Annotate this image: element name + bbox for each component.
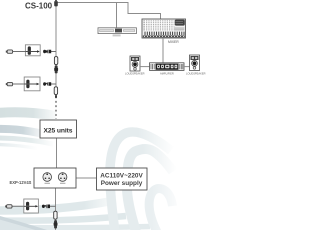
left band A [0,112,56,116]
bottom flat band N3 [0,227,150,228]
bottom flat band N2 [0,216,126,221]
wire: left speaker to amplifier [140,66,150,68]
branch 3 junction box [24,199,39,213]
svg-text:Power supply: Power supply [101,180,143,187]
branch 2 junction box [24,77,40,91]
left band B [0,129,44,134]
CD player [98,28,136,37]
branch 2 wire [13,83,41,85]
wire: drop to player [116,3,118,29]
loudspeaker right [190,55,200,71]
wire: connector box to power supply [76,177,97,179]
branch 3 handheld plug [5,205,12,208]
trunk inline coupler 2 (socket) [54,87,57,95]
svg-text:EXP-12V4S: EXP-12V4S [10,180,32,185]
branch 2 handheld plug [6,82,13,85]
svg-text:AC110V~220V: AC110V~220V [100,173,143,180]
bottom-left corner wedge [0,217,54,234]
power supply box [97,168,148,190]
wire: trunk between boxes [56,138,58,168]
trunk inline coupler 1 (socket) [54,57,57,65]
amplifier [150,63,185,71]
svg-text:LOUDSPEAKER: LOUDSPEAKER [186,72,206,76]
branch 1 junction box [25,45,40,56]
svg-text:CS-100: CS-100 [25,2,53,11]
swoosh band S3 [149,188,172,232]
branch 3 cable connector to trunk [42,205,50,209]
power connector box EXP-12V4S [34,168,76,188]
left band C [0,138,53,144]
svg-text:AMPLIFIER: AMPLIFIER [160,72,174,76]
branch 2 cable connector to trunk [43,82,51,86]
trunk inline coupler 3 (socket) [54,211,57,219]
left band D [0,145,37,149]
svg-text:LOUDSPEAKER: LOUDSPEAKER [125,72,145,76]
svg-text:MIXER: MIXER [168,40,179,44]
swoosh band S2 [127,149,173,232]
branch 1 wire [13,51,41,53]
loudspeaker left [130,56,140,71]
mixer U1 [142,19,186,38]
bottom flat band N1 [0,201,112,211]
branch 1 handheld plug [6,50,13,53]
wire: drop then over to mixer [128,3,161,20]
svg-text:X25 units: X25 units [44,127,73,134]
trunk inline coupler 3 (plug) [54,220,57,228]
wire: trunk dotted continuation [55,97,57,120]
branch 1 cable connector to trunk [43,50,51,54]
branch 3 wire [12,205,38,207]
X25 units box [40,120,77,138]
trunk inline coupler 1 (plug) [55,65,58,73]
wire: amplifier to right speaker [184,66,190,68]
wire: mixer to amplifier [162,38,164,63]
wire: top horizontal bus [56,2,129,4]
wire: main trunk upper [55,3,57,96]
swoosh band S1 [110,132,171,232]
connector plug at top of trunk [54,0,58,6]
wire: trunk bottom [55,188,57,230]
background watermark swoosh bands [0,112,173,234]
